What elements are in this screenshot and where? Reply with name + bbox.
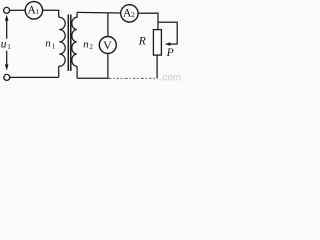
transformer primary winding n1 (59, 17, 66, 66)
terminal T1 top input (4, 7, 10, 13)
wire bottom rail secondary faint dashed part (108, 77, 157, 79)
voltmeter V (99, 37, 116, 54)
wire secondary bottom lead (76, 66, 78, 78)
svg-text:n: n (83, 39, 89, 51)
wire V bottom lead (107, 54, 109, 79)
transformer core (68, 15, 71, 72)
terminal T2 bottom input (4, 74, 10, 80)
svg-text:P: P (166, 47, 174, 59)
wiper arrow P (165, 42, 177, 46)
svg-text:2: 2 (89, 43, 93, 51)
label u1 (1, 39, 11, 52)
svg-text:R: R (138, 35, 146, 47)
svg-text:u: u (1, 39, 7, 51)
ammeter A2 (121, 5, 138, 22)
voltage arrow u1 lower part (5, 51, 9, 71)
wire secondary top rail to A2 (77, 11, 121, 14)
svg-text:V: V (103, 38, 112, 52)
wire bottom rail secondary solid part (77, 77, 108, 79)
svg-text:1: 1 (52, 42, 56, 50)
wire R bottom lead (156, 55, 158, 78)
label n2 (83, 39, 93, 52)
svg-text:1: 1 (7, 43, 11, 51)
svg-text:2: 2 (131, 11, 135, 19)
wire V top lead (107, 13, 109, 37)
ammeter A1 (25, 2, 42, 19)
wire bottom rail primary (10, 76, 59, 78)
voltage arrow u1 upper part (5, 15, 9, 39)
transformer secondary winding n2 (72, 13, 77, 67)
wire A2 to top right corner and down to R (138, 13, 158, 30)
svg-text:1: 1 (36, 8, 40, 16)
wire wiper feed branch (158, 22, 177, 44)
label n1 (45, 38, 56, 51)
wire A1 to primary top (43, 10, 59, 17)
resistor R body (153, 30, 161, 55)
wire primary bottom (58, 66, 60, 77)
svg-text:n: n (45, 38, 51, 50)
wire T1 to A1 (10, 9, 25, 11)
svg-text:.com: .com (160, 73, 181, 83)
